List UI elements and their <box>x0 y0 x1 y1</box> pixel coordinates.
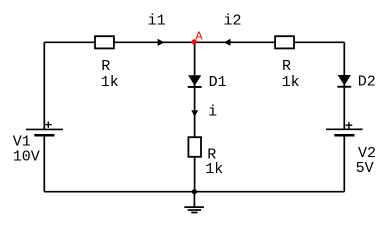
svg-text:R: R <box>101 58 110 75</box>
svg-text:i1: i1 <box>148 13 166 30</box>
svg-text:1k: 1k <box>101 74 119 91</box>
svg-text:D2: D2 <box>358 74 376 91</box>
svg-text:i2: i2 <box>224 13 242 30</box>
svg-text:A: A <box>195 30 203 44</box>
svg-text:R: R <box>282 58 291 75</box>
svg-text:D1: D1 <box>209 74 227 91</box>
svg-text:10V: 10V <box>13 149 40 166</box>
svg-text:1k: 1k <box>282 74 300 91</box>
svg-text:i: i <box>208 104 217 121</box>
svg-text:1k: 1k <box>205 161 223 178</box>
svg-text:5V: 5V <box>356 160 374 177</box>
